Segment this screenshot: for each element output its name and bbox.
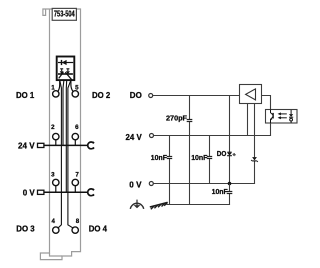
24V rail (module)	[44, 144, 88, 146]
output transistors symbol inside function box	[58, 69, 73, 80]
svg-text:1: 1	[51, 84, 55, 91]
0V rail wire	[153, 183, 255, 185]
function box U1	[57, 57, 75, 81]
capacitor 10nF #1 plates	[167, 157, 172, 159]
junction dot 0V/LED	[228, 182, 232, 186]
svg-text:2: 2	[51, 124, 55, 131]
capacitor 10nF #3 plates	[227, 192, 233, 194]
svg-text:5: 5	[75, 84, 79, 91]
svg-text:753-504: 753-504	[54, 8, 75, 18]
earth line	[167, 204, 231, 206]
pin 2	[53, 133, 59, 139]
pin 5	[72, 91, 78, 97]
svg-text:DO 4: DO 4	[89, 223, 107, 233]
pin 8	[72, 227, 78, 233]
capacitor 270pF branch wire	[189, 96, 191, 205]
24V rail wire	[154, 135, 271, 137]
0V terminal circle	[149, 182, 153, 186]
DO rail wire	[153, 95, 240, 97]
24V terminal circle	[150, 134, 154, 138]
optocoupler phototransistor	[270, 110, 273, 124]
capacitor 270pF plates	[187, 120, 193, 122]
optocoupler emitter pin to 24V rail	[270, 123, 272, 136]
chassis ground symbol	[150, 202, 168, 209]
svg-text:4: 4	[51, 218, 55, 225]
pin 4	[53, 227, 59, 233]
flyback zener diode	[251, 157, 258, 162]
DO terminal circle	[149, 94, 153, 98]
svg-text:DO: DO	[217, 149, 227, 158]
svg-text:0 V: 0 V	[23, 188, 35, 198]
24V terminal marker	[38, 143, 44, 147]
pin 6	[72, 133, 78, 139]
optocoupler box	[266, 110, 298, 124]
svg-text:10nF: 10nF	[151, 153, 167, 162]
0V terminal marker	[38, 190, 44, 194]
driver triangle	[246, 89, 256, 100]
capacitor 10nF #2 branch wire	[209, 136, 211, 184]
DO status LED branch wire	[229, 96, 231, 184]
svg-text:24 V: 24 V	[126, 132, 142, 142]
svg-text:270pF: 270pF	[166, 113, 187, 122]
flyback diode branch wire	[254, 104, 256, 184]
wire box to pin 4	[58, 80, 61, 228]
pin 7	[72, 179, 78, 185]
label box 753-504	[52, 8, 76, 20]
svg-text:DO 3: DO 3	[16, 223, 34, 233]
wire box to pin 8	[68, 80, 73, 228]
svg-text:DO: DO	[130, 90, 142, 100]
svg-text:24 V: 24 V	[18, 141, 35, 151]
module body outline	[40, 9, 80, 260]
svg-text:6: 6	[75, 124, 79, 131]
capacitor 10nF #1 branch wire	[169, 136, 171, 205]
svg-text:10nF: 10nF	[191, 153, 207, 162]
functional earth symbol	[130, 200, 143, 209]
pin 1	[53, 91, 59, 97]
wire box to 24V rail	[62, 80, 65, 145]
driver supply pin to 24V	[247, 104, 249, 136]
optocoupler light arrows	[278, 112, 287, 119]
reverse polarity diode inside function box	[58, 60, 73, 65]
svg-text:7: 7	[75, 171, 79, 178]
capacitor 10nF #3 branch wire	[229, 184, 231, 205]
svg-text:DO 1: DO 1	[16, 90, 34, 100]
24V jumper contact hook	[88, 142, 94, 149]
driver box	[240, 85, 262, 104]
optocoupler LED with indicator	[289, 110, 293, 123]
pin 3	[53, 179, 59, 185]
svg-text:10nF: 10nF	[212, 187, 228, 196]
svg-text:3: 3	[51, 171, 55, 178]
0V rail (module)	[44, 191, 88, 193]
driver output wire to optocoupler	[261, 96, 271, 111]
svg-text:0 V: 0 V	[129, 180, 141, 190]
wire box to pin 5	[71, 80, 73, 91]
capacitor 10nF #2 plates	[207, 157, 212, 159]
0V jumper contact hook	[88, 189, 94, 196]
svg-text:DO 2: DO 2	[92, 90, 110, 100]
DO status LED symbol	[227, 152, 235, 156]
wire box to pin 1	[58, 80, 60, 91]
wire box to 0V rail	[65, 80, 67, 192]
svg-text:8: 8	[76, 218, 80, 225]
